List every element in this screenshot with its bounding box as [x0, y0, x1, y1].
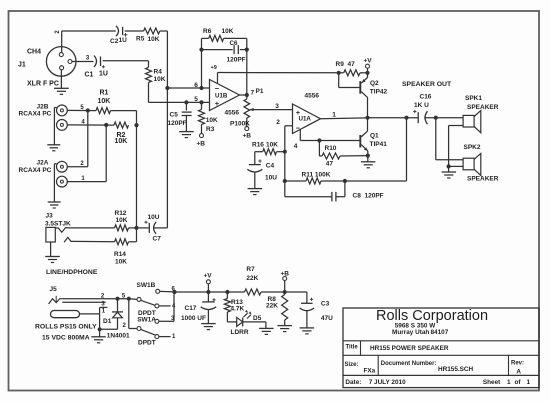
svg-text:C3: C3: [321, 301, 330, 308]
svg-text:DPDT: DPDT: [138, 340, 156, 347]
svg-text:R10: R10: [325, 145, 337, 152]
diode D1 1N4001: [100, 299, 130, 340]
wire C7 to bus: [153, 88, 167, 228]
svg-text:+B: +B: [281, 270, 290, 277]
svg-text:C7: C7: [153, 236, 162, 243]
svg-text:10K: 10K: [98, 98, 111, 105]
svg-text:Title: Title: [346, 344, 359, 350]
wire to SPK2: [436, 118, 463, 160]
svg-text:1: 1: [332, 112, 336, 119]
switch SW1A: [129, 292, 176, 347]
svg-text:10K: 10K: [115, 138, 128, 145]
wire mix node down to line in node: [136, 125, 138, 228]
power +V rail: [204, 272, 213, 292]
wire U1A pin4 to Q1 base: [294, 130, 360, 151]
svg-text:+9: +9: [211, 65, 217, 71]
svg-text:10K: 10K: [206, 117, 218, 124]
svg-text:Sheet: Sheet: [483, 379, 501, 386]
ground C5: [179, 132, 194, 138]
wire U1A out to rail: [321, 112, 368, 119]
LED D5 LDRR: [227, 310, 266, 336]
node 6 dot: [172, 290, 176, 294]
svg-text:of: of: [515, 379, 522, 386]
title block: [343, 308, 539, 388]
svg-text:22K: 22K: [246, 275, 258, 282]
svg-text:R9: R9: [336, 61, 345, 68]
op-amp U1A: [293, 93, 321, 134]
svg-text:3.5STJK: 3.5STJK: [45, 220, 71, 227]
wire SPK2 return: [447, 164, 464, 168]
svg-text:1U: 1U: [99, 71, 108, 78]
ground speakers: [442, 166, 457, 178]
svg-text:47U: 47U: [321, 315, 333, 322]
svg-text:+B: +B: [197, 141, 206, 148]
svg-text:10K: 10K: [116, 217, 128, 224]
wire R12 to node: [129, 226, 139, 230]
resistor R13 4.7K: [224, 292, 244, 313]
svg-text:LDRR: LDRR: [231, 329, 249, 336]
wire ring to R14: [75, 240, 115, 242]
capacitor C2 1U: [110, 26, 127, 45]
svg-text:U1B: U1B: [215, 93, 228, 100]
svg-text:SPEAKER: SPEAKER: [467, 176, 499, 183]
svg-text:U1A: U1A: [299, 116, 312, 123]
svg-text:D5: D5: [253, 315, 262, 322]
wire J1 pin 3 to C1: [72, 56, 93, 62]
svg-text:SPEAKER OUT: SPEAKER OUT: [402, 81, 452, 88]
svg-text:10K: 10K: [266, 142, 278, 149]
svg-text:A: A: [516, 368, 521, 375]
svg-text:J2B: J2B: [37, 104, 49, 111]
svg-text:1K U: 1K U: [414, 102, 429, 109]
wire tip to R12: [69, 227, 115, 229]
svg-text:+B: +B: [243, 133, 252, 140]
svg-text:R1: R1: [100, 90, 109, 97]
svg-text:4: 4: [294, 143, 298, 150]
speaker SPK1: [463, 95, 499, 133]
wire supply rail to R9: [336, 61, 356, 75]
wire bus to pin6: [165, 82, 209, 90]
svg-text:SW1A: SW1A: [137, 316, 156, 323]
svg-text:C5: C5: [170, 112, 179, 119]
potentiometer P1 P100K: [230, 95, 254, 128]
ground C4: [248, 189, 263, 195]
terminal +B below P1: [243, 127, 252, 140]
wire SPK1 return: [449, 126, 464, 167]
svg-text:FXa: FXa: [364, 367, 376, 374]
op-amp U1B: [210, 80, 240, 117]
svg-text:C4: C4: [266, 163, 275, 170]
capacitor C6 120PF: [202, 40, 247, 64]
svg-text:3: 3: [275, 103, 279, 110]
connector J2A RCAX4 PC: [19, 160, 68, 188]
connector J1 XLR F PC: [18, 47, 76, 88]
svg-text:1000 UF: 1000 UF: [181, 315, 206, 322]
resistor R6 10K: [202, 28, 247, 49]
capacitor C1 1U: [85, 56, 108, 79]
resistor R14 10K: [114, 239, 129, 266]
svg-text:J2A: J2A: [37, 160, 49, 167]
capacitor C7 10U: [137, 214, 162, 243]
svg-text:C16: C16: [420, 94, 432, 101]
svg-text:10K: 10K: [154, 76, 166, 83]
switch SW1B: [129, 282, 176, 317]
svg-text:Q2: Q2: [370, 80, 379, 87]
svg-text:4556: 4556: [225, 110, 240, 117]
capacitor C17 1000UF: [181, 292, 216, 324]
svg-text:R14: R14: [114, 251, 126, 258]
ground D5: [259, 322, 274, 335]
svg-text:R16: R16: [252, 142, 264, 149]
svg-text:HR155.SCH: HR155.SCH: [438, 366, 474, 373]
wire node to C2: [62, 30, 116, 32]
svg-text:RCAX4 PC: RCAX4 PC: [19, 111, 52, 118]
node output rail: [365, 116, 369, 120]
ground J2A sleeve: [48, 164, 61, 208]
svg-text:120PF: 120PF: [227, 57, 246, 64]
label SPEAKER OUT: [402, 81, 452, 88]
ground J3: [45, 242, 60, 263]
capacitor C5 120PF: [168, 102, 192, 131]
svg-text:Murray Utah: Murray Utah: [392, 329, 429, 336]
wire power rail: [175, 290, 245, 294]
svg-text:22K: 22K: [266, 303, 278, 310]
svg-text:Document Number:: Document Number:: [381, 361, 437, 367]
svg-text:1N4001: 1N4001: [107, 333, 130, 340]
wire R5 to node 6 bus: [160, 31, 168, 88]
resistor R16 10K: [252, 142, 287, 155]
node R1/R2 junction: [134, 123, 138, 127]
wire J1 pin 2 up to C2: [55, 30, 62, 53]
ground C17: [201, 324, 216, 330]
svg-text:2: 2: [276, 119, 280, 126]
svg-text:7: 7: [251, 89, 255, 96]
node pin5 dots: [184, 96, 203, 105]
svg-text:10U: 10U: [265, 175, 277, 182]
capacitor C4 10U: [247, 152, 277, 189]
speaker SPK2: [463, 144, 499, 183]
wire J2A pin1 up to node: [67, 125, 106, 182]
wire C1 to R4: [103, 61, 149, 68]
svg-text:J1: J1: [18, 62, 26, 69]
svg-text:J3: J3: [46, 212, 54, 219]
wire U1A pin2: [276, 119, 292, 181]
svg-text:Q1: Q1: [370, 133, 379, 140]
transistor Q2 TIP42: [339, 73, 388, 118]
svg-text:1: 1: [507, 379, 511, 386]
resistor R1 10K: [96, 90, 111, 114]
svg-text:J5: J5: [50, 286, 58, 293]
svg-text:1: 1: [527, 379, 531, 386]
svg-text:SPEAKER: SPEAKER: [467, 104, 499, 111]
wire feedback from output: [345, 118, 407, 181]
wire C16 to speakers: [424, 116, 463, 120]
wire J2A pin2 up to node: [67, 111, 88, 168]
svg-text:C2: C2: [110, 38, 119, 45]
wire P1 wiper to U1A pin3: [254, 103, 293, 110]
ground J5: [91, 327, 106, 343]
node pin6 dot: [199, 86, 203, 90]
svg-text:C8: C8: [353, 192, 362, 199]
wire U1B supply to output stage: [218, 73, 339, 84]
capacitor C3 47U: [300, 292, 334, 328]
svg-text:HR155 POWER SPEAKER: HR155 POWER SPEAKER: [370, 345, 449, 352]
svg-text:R4: R4: [154, 69, 163, 76]
svg-text:7 JULY 2010: 7 JULY 2010: [369, 379, 406, 386]
terminal +B below R3: [197, 134, 206, 148]
power +B rail: [281, 270, 290, 292]
resistor R9 47: [339, 70, 370, 76]
svg-text:R12: R12: [115, 210, 127, 217]
svg-text:C6: C6: [230, 40, 238, 47]
wire R1 to mix node: [111, 111, 137, 126]
connector J5 power jack: [49, 286, 63, 304]
svg-text:10K: 10K: [222, 28, 234, 35]
feedback node wires U1B: [202, 50, 247, 95]
svg-text:RCAX4 PC: RCAX4 PC: [19, 167, 52, 174]
svg-text:R5: R5: [136, 36, 145, 43]
label LINE/HDPHONE: [46, 269, 98, 276]
capacitor C16 1KU: [413, 94, 432, 125]
svg-text:Size:: Size:: [345, 362, 359, 368]
capacitor C8 120PF: [285, 181, 384, 201]
svg-text:R6: R6: [203, 28, 212, 35]
svg-text:+: +: [215, 99, 220, 108]
svg-text:SPK2: SPK2: [464, 144, 481, 151]
svg-text:1U: 1U: [119, 37, 128, 44]
svg-text:4.7K: 4.7K: [231, 306, 245, 313]
ground J2B sleeve: [47, 108, 60, 151]
resistor R10 47: [319, 141, 367, 168]
svg-text:LINE/HDPHONE: LINE/HDPHONE: [46, 269, 98, 276]
svg-text:ROLLS PS15 ONLY: ROLLS PS15 ONLY: [35, 323, 97, 330]
power +V at Q2: [364, 58, 373, 73]
svg-text:120PF: 120PF: [365, 192, 384, 199]
label +9 supply: [211, 65, 217, 71]
svg-text:R11 100K: R11 100K: [302, 171, 331, 178]
resistor R3 10K: [199, 102, 219, 133]
svg-text:84107: 84107: [431, 329, 449, 336]
svg-text:Rev:: Rev:: [511, 360, 524, 366]
svg-text:SW1B: SW1B: [137, 282, 156, 289]
svg-text:15 VDC 800MA: 15 VDC 800MA: [42, 335, 90, 342]
ground C3: [300, 328, 315, 334]
svg-text:CH4: CH4: [27, 49, 41, 56]
svg-text:D1: D1: [103, 318, 112, 325]
resistor R11 100K: [283, 171, 347, 184]
svg-text:P1: P1: [256, 88, 264, 95]
svg-text:120PF: 120PF: [168, 120, 187, 127]
wire R4 to pin5 line: [149, 83, 210, 103]
svg-text:47: 47: [326, 161, 334, 168]
node R6/C6 dots: [199, 48, 249, 52]
resistor R4 10K: [146, 67, 166, 83]
label ROLLS PS15 ONLY: [35, 323, 97, 330]
svg-text:4556: 4556: [305, 93, 320, 100]
wire U1B out pin7: [240, 88, 264, 97]
svg-text:TIP42: TIP42: [370, 89, 388, 96]
svg-text:10K: 10K: [148, 36, 160, 43]
svg-text:Date:: Date:: [345, 379, 361, 386]
svg-text:C17: C17: [185, 305, 197, 312]
svg-text:10K: 10K: [115, 259, 127, 266]
svg-text:+V: +V: [364, 58, 373, 65]
svg-text:XLR F PC: XLR F PC: [27, 81, 59, 88]
resistor R5 10K: [136, 28, 160, 43]
wire J2B pin5 to R1: [67, 105, 96, 113]
barrel J5 pin1: [51, 307, 108, 329]
svg-text:R3: R3: [206, 126, 215, 133]
svg-text:6: 6: [194, 82, 198, 89]
wire C2 to R5: [125, 30, 144, 32]
connector J3 3.5STJK: [45, 212, 75, 242]
wire R7 to +B node: [261, 290, 307, 294]
ground J1: [54, 70, 69, 95]
ground R8: [277, 326, 292, 332]
resistor R7 22K: [245, 266, 262, 295]
wire J2B pin4 to R2: [67, 120, 114, 128]
wire J5 pin2: [63, 293, 131, 301]
svg-text:10U: 10U: [148, 214, 160, 221]
wire J5 pin3 stub: [62, 302, 105, 308]
wire rail to C16: [368, 116, 418, 120]
resistor R8 22K: [266, 292, 288, 326]
svg-text:SPK1: SPK1: [465, 95, 482, 102]
transistor Q1 TIP41: [360, 118, 387, 156]
ground Q1 emitter: [361, 154, 376, 168]
svg-text:TIP41: TIP41: [370, 141, 388, 148]
wire R14 to node: [129, 228, 137, 242]
resistor R2 10K: [114, 122, 129, 145]
resistor R12 10K: [115, 210, 129, 231]
svg-text:R7: R7: [246, 266, 255, 273]
label 15 VDC 800MA: [42, 335, 90, 342]
svg-text:C1: C1: [85, 72, 94, 79]
svg-text:47: 47: [348, 61, 356, 68]
svg-text:5: 5: [194, 96, 198, 103]
svg-text:+V: +V: [204, 272, 213, 279]
connector J2B RCAX4 PC: [19, 104, 68, 131]
